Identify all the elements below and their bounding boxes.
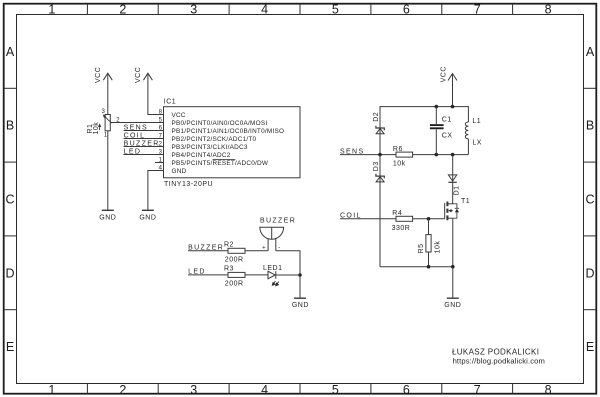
svg-text:R4: R4 bbox=[392, 210, 402, 217]
svg-text:D3: D3 bbox=[373, 161, 380, 171]
svg-text:T1: T1 bbox=[461, 198, 470, 205]
svg-text:3: 3 bbox=[190, 383, 197, 397]
svg-text:D: D bbox=[5, 266, 14, 280]
wire buzzer - to GND rail bbox=[276, 251, 300, 298]
capacitor C1 bottom lead bbox=[435, 129, 437, 154]
svg-text:PB3/PCINT3/CLKI/ADC3: PB3/PCINT3/CLKI/ADC3 bbox=[172, 144, 248, 151]
svg-text:2: 2 bbox=[119, 383, 126, 397]
trimmer R1 pin numbers 3 1 2 bbox=[102, 109, 121, 138]
trimmer R1 wiper arrow bbox=[98, 114, 112, 130]
wire LED1 to junction bbox=[276, 274, 300, 276]
net label BUZZER (at IC pin 2) bbox=[124, 140, 164, 147]
net label SENS (at IC pin 6) bbox=[124, 124, 164, 131]
frame column numbers top bbox=[48, 3, 551, 17]
diode D3 (zener) bbox=[373, 161, 384, 182]
svg-text:L1: L1 bbox=[472, 118, 481, 125]
IC U1 box bbox=[164, 107, 301, 178]
junction node (D2 / D3 / SENS) bbox=[378, 153, 382, 157]
junction node (C1 bottom) bbox=[435, 153, 439, 157]
wire R5 bottom lead bbox=[428, 252, 430, 267]
svg-text:7: 7 bbox=[474, 3, 481, 17]
resistor R2 body bbox=[228, 248, 245, 253]
capacitor C1 plates bbox=[430, 125, 444, 128]
junction node (T1 source / rail / GND) bbox=[451, 265, 455, 269]
svg-text:200R: 200R bbox=[225, 281, 244, 288]
IC1 pin numbers bbox=[159, 109, 163, 171]
svg-text:3: 3 bbox=[190, 3, 197, 17]
buzzer body bbox=[260, 227, 284, 239]
svg-text:BUZZER: BUZZER bbox=[124, 140, 160, 147]
svg-text:E: E bbox=[586, 340, 594, 354]
wire top rail to SENS row (through D2) bbox=[379, 106, 381, 155]
trimmer R1 labels R1 10k bbox=[87, 122, 100, 135]
svg-text:R5: R5 bbox=[418, 243, 425, 253]
power symbol VCC (left, above R1) bbox=[95, 67, 112, 83]
svg-text:VCC: VCC bbox=[440, 66, 447, 82]
junction node (R5 bottom / rail) bbox=[427, 265, 431, 269]
wire bottom rail bbox=[380, 266, 453, 268]
resistor R3 value 200R bbox=[225, 281, 244, 288]
svg-text:2: 2 bbox=[119, 3, 126, 17]
svg-text:PB4/PCINT4/ADC2: PB4/PCINT4/ADC2 bbox=[172, 152, 231, 159]
wire R2 to buzzer + bbox=[245, 250, 268, 252]
LED LED1 diode symbol bbox=[268, 271, 276, 279]
svg-text:5: 5 bbox=[332, 3, 339, 17]
IC1 value label TINY13-20PU bbox=[164, 181, 213, 188]
transistor T1 body diode bbox=[453, 204, 459, 218]
LED LED1 name label bbox=[263, 265, 283, 272]
svg-text:LED: LED bbox=[124, 148, 142, 155]
IC1 RESET overline bbox=[213, 159, 236, 161]
resistor R2 value 200R bbox=[225, 257, 244, 264]
svg-text:1: 1 bbox=[48, 383, 55, 397]
transistor T1 name label bbox=[461, 198, 470, 205]
svg-text:R3: R3 bbox=[224, 265, 234, 272]
power symbol VCC (right) bbox=[440, 66, 457, 82]
svg-text:PB1/PCINT1/AIN1/OC0B/INT0/MISO: PB1/PCINT1/AIN1/OC0B/INT0/MISO bbox=[172, 128, 285, 135]
resistor R5 body bbox=[426, 235, 431, 252]
resistor R3 body bbox=[228, 272, 245, 277]
capacitor C1 top lead bbox=[435, 107, 437, 124]
frame column ticks bbox=[87, 5, 512, 395]
ground GND (under IC pin 4) bbox=[139, 210, 156, 221]
svg-text:LED1: LED1 bbox=[263, 265, 283, 272]
net label SENS (right) bbox=[340, 148, 396, 155]
buzzer pin - bbox=[276, 238, 281, 251]
wire IC pin 4 to GND bbox=[148, 171, 164, 211]
svg-text:GND: GND bbox=[444, 302, 461, 309]
wire D3 to bottom rail bbox=[379, 155, 381, 267]
svg-text:8: 8 bbox=[545, 3, 552, 17]
svg-text:IC1: IC1 bbox=[164, 98, 176, 105]
wire R4 to T1 gate bbox=[413, 218, 445, 220]
title block author text bbox=[452, 348, 545, 366]
svg-text:10k: 10k bbox=[93, 122, 100, 135]
svg-text:R2: R2 bbox=[224, 242, 234, 249]
svg-text:GND: GND bbox=[139, 214, 156, 221]
IC1 pin name texts bbox=[172, 112, 285, 175]
frame row letters right bbox=[585, 45, 594, 354]
ground GND (under R1) bbox=[99, 210, 116, 221]
svg-text:D1: D1 bbox=[454, 185, 461, 195]
svg-text:C1: C1 bbox=[442, 117, 452, 124]
svg-text:10k: 10k bbox=[393, 160, 406, 167]
svg-text:BUZZER: BUZZER bbox=[188, 245, 224, 252]
wire R6 to L1 bottom corner bbox=[413, 154, 469, 156]
svg-text:C: C bbox=[5, 193, 14, 207]
inductor L1 value LX bbox=[472, 139, 482, 146]
svg-text:8: 8 bbox=[545, 383, 552, 397]
wire VCC to IC pin 8 bbox=[148, 73, 164, 114]
resistor R3 name label bbox=[224, 265, 234, 272]
svg-text:200R: 200R bbox=[225, 257, 244, 264]
svg-text:https://blog.podkalicki.com: https://blog.podkalicki.com bbox=[453, 356, 545, 365]
resistor R6 name label bbox=[393, 146, 403, 153]
IC1 name label bbox=[164, 98, 176, 105]
inductor L1 coil bbox=[465, 106, 468, 155]
buzzer BUZZER name label bbox=[260, 218, 296, 225]
junction node (D1 top / SENS row) bbox=[451, 153, 455, 157]
svg-text:A: A bbox=[6, 45, 15, 59]
wire VCC down to top rail bbox=[452, 74, 454, 107]
net label LED (at R3) bbox=[188, 269, 228, 276]
inductor L1 name label bbox=[472, 118, 481, 125]
frame column numbers bottom bbox=[48, 383, 551, 397]
svg-text:E: E bbox=[6, 340, 14, 354]
svg-text:ŁUKASZ PODKALICKI: ŁUKASZ PODKALICKI bbox=[452, 348, 539, 357]
resistor R5 value 10k bbox=[434, 241, 441, 254]
ground GND (right) bbox=[444, 298, 461, 309]
svg-text:6: 6 bbox=[403, 3, 410, 17]
frame row ticks bbox=[5, 88, 596, 309]
transistor T1 (n-mosfet) bbox=[445, 202, 453, 221]
svg-text:D2: D2 bbox=[373, 112, 380, 122]
resistor R6 body bbox=[396, 152, 413, 157]
svg-text:VCC: VCC bbox=[135, 67, 142, 83]
wire SENS row to T1 drain (through D1) bbox=[452, 155, 454, 204]
svg-text:GND: GND bbox=[292, 302, 309, 309]
junction node (R5 top / gate wire) bbox=[427, 217, 431, 221]
junction node (LED cathode / GND rail) bbox=[298, 273, 302, 277]
svg-text:B: B bbox=[6, 119, 14, 133]
wire VCC to R1 top bbox=[107, 73, 109, 114]
net label COIL (at IC pin 7) bbox=[124, 132, 164, 139]
svg-text:B: B bbox=[586, 119, 594, 133]
svg-text:BUZZER: BUZZER bbox=[260, 218, 296, 225]
svg-text:PB2/PCINT2/SCK/ADC1/T0: PB2/PCINT2/SCK/ADC1/T0 bbox=[172, 136, 257, 143]
svg-text:PB0/PCINT0/AIN0/OC0A/MOSI: PB0/PCINT0/AIN0/OC0A/MOSI bbox=[172, 120, 268, 127]
power symbol VCC (left, pin 8) bbox=[135, 67, 152, 83]
svg-text:1: 1 bbox=[48, 3, 55, 17]
svg-text:6: 6 bbox=[403, 383, 410, 397]
svg-text:LX: LX bbox=[472, 139, 482, 146]
svg-text:5: 5 bbox=[332, 383, 339, 397]
svg-text:COIL: COIL bbox=[340, 213, 362, 220]
net label COIL (right) bbox=[340, 213, 396, 220]
buzzer pin + bbox=[262, 239, 268, 252]
wire R3 to LED1 bbox=[245, 274, 268, 276]
svg-text:SENS: SENS bbox=[124, 124, 148, 131]
svg-text:330R: 330R bbox=[392, 225, 411, 232]
wire R1 pin2 to IC pin5 bbox=[111, 122, 164, 124]
net label LED (at IC pin 3) bbox=[124, 148, 164, 155]
svg-text:COIL: COIL bbox=[124, 132, 146, 139]
svg-text:GND: GND bbox=[99, 214, 116, 221]
svg-text:PB5/PCINT5/RESET/ADC0/DW: PB5/PCINT5/RESET/ADC0/DW bbox=[172, 160, 269, 167]
svg-text:CX: CX bbox=[442, 133, 453, 140]
net label BUZZER (at R2) bbox=[188, 245, 228, 252]
svg-text:C: C bbox=[585, 193, 594, 207]
wire T1 source to bottom rail bbox=[452, 218, 454, 267]
capacitor C1 value CX bbox=[442, 133, 453, 140]
svg-text:10k: 10k bbox=[434, 241, 441, 254]
ground GND (middle) bbox=[292, 298, 309, 309]
wire rail to GND (right) bbox=[452, 267, 454, 299]
trimmer R1 body bbox=[105, 115, 110, 131]
capacitor C1 name label bbox=[442, 117, 452, 124]
svg-text:7: 7 bbox=[474, 383, 481, 397]
svg-text:VCC: VCC bbox=[95, 67, 102, 83]
resistor R4 name label bbox=[392, 210, 402, 217]
wire R5 top lead bbox=[428, 219, 430, 235]
junction node (VCC / top rail) bbox=[451, 105, 455, 109]
svg-text:SENS: SENS bbox=[340, 148, 364, 155]
resistor R5 name label bbox=[418, 243, 425, 253]
svg-text:D: D bbox=[585, 266, 594, 280]
svg-text:R6: R6 bbox=[393, 146, 403, 153]
LED LED1 emission arrows bbox=[272, 281, 279, 286]
svg-text:GND: GND bbox=[172, 168, 187, 175]
diode D1 bbox=[448, 175, 460, 196]
diode D2 (zener) bbox=[373, 112, 384, 134]
svg-text:A: A bbox=[586, 45, 595, 59]
junction node (C1 top) bbox=[435, 105, 439, 109]
wire top rail bbox=[380, 106, 468, 108]
wire R1 bottom to GND bbox=[107, 131, 109, 211]
svg-text:VCC: VCC bbox=[172, 112, 186, 119]
svg-text:4: 4 bbox=[261, 383, 268, 397]
resistor R4 value 330R bbox=[392, 225, 411, 232]
frame row letters left bbox=[5, 45, 14, 354]
svg-text:TINY13-20PU: TINY13-20PU bbox=[164, 181, 213, 188]
resistor R2 name label bbox=[224, 242, 234, 249]
resistor R4 body bbox=[396, 216, 413, 221]
svg-text:4: 4 bbox=[261, 3, 268, 17]
svg-text:LED: LED bbox=[188, 269, 206, 276]
IC1 pin 1 stub bbox=[155, 162, 164, 164]
resistor R6 value 10k bbox=[393, 160, 406, 167]
